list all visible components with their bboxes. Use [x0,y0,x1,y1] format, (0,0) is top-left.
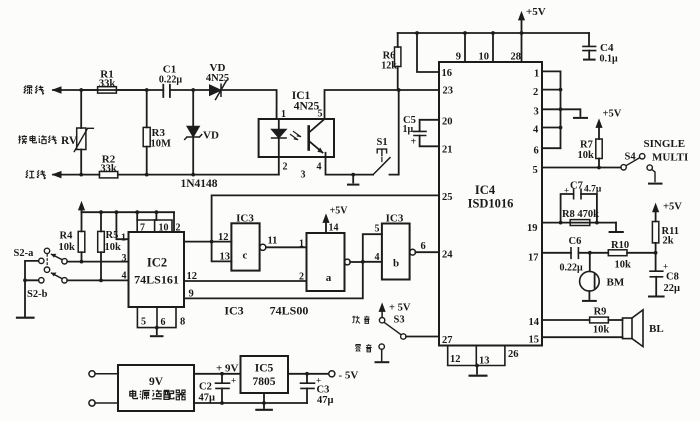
switch S2-b [39,267,68,283]
resistor R4 [78,212,85,263]
label 放音 [352,316,369,324]
wire IC4 pin28 top [521,33,523,62]
wire IC3a out to node [350,261,363,263]
logic gate IC3c [231,223,266,270]
label 录音 [356,344,372,352]
svg-text:C8: C8 [666,272,679,283]
switch S3 record/play [376,304,406,363]
resistor R2 [81,172,147,178]
svg-text:0.22μ: 0.22μ [560,263,584,274]
svg-text:SINGLE: SINGLE [644,138,686,150]
svg-text:33k: 33k [99,79,116,90]
switch S4 SINGLE/MULTI [621,154,662,184]
svg-text:10k: 10k [59,242,76,253]
node dot R3 bottom [145,173,149,177]
wire IC4 pin17 [542,252,571,254]
resistor R8 [570,220,590,226]
svg-text:R4: R4 [60,231,74,242]
node dots rail IC2 [99,210,103,214]
svg-text:5: 5 [141,317,146,328]
svg-text:33k: 33k [100,164,117,175]
svg-text:22μ: 22μ [664,283,681,294]
wire +5V rail top [398,32,589,34]
svg-text:0.22μ: 0.22μ [159,75,183,86]
svg-text:27: 27 [442,335,453,346]
svg-text:2k: 2k [663,236,674,247]
wire IC4 pin15 [542,336,623,338]
IC2 top pins 7/10 box [137,220,172,232]
ground (bottom line near S1) [348,173,358,185]
capacitor C8 [649,253,664,297]
pin 1 lead IC1 [276,110,278,119]
wire IC4 pin3 and ground [542,109,587,118]
switch S1 (pushbutton) [373,90,399,175]
svg-text:17: 17 [528,253,539,264]
svg-text:14: 14 [529,317,540,328]
svg-text:12: 12 [187,271,198,282]
wire IC2 right to IC3c inputs [184,241,231,243]
capacitor C6 [571,248,608,258]
svg-text:S2-a: S2-a [14,248,35,259]
power +5V arrow top [519,12,525,33]
resistor R1 [81,87,147,93]
svg-text:+: + [411,137,417,148]
svg-text:23: 23 [443,86,454,97]
svg-text:2: 2 [533,87,538,98]
svg-text:R9: R9 [594,307,607,318]
wire IC1 pin4 emitter to bottom line [326,157,374,175]
IC4 bottom pins 12/13 box [448,346,505,366]
node dot junction R1/RV [79,88,83,92]
resistor R3 [143,90,150,175]
wire C1 to VD [170,89,210,91]
svg-text:74LS00: 74LS00 [270,304,309,318]
svg-text:12k: 12k [381,61,397,72]
svg-text:7: 7 [140,223,145,234]
resistor R9 [590,317,623,323]
svg-text:10k: 10k [615,260,632,271]
wire IC4 pin16 [417,33,439,72]
svg-text:4: 4 [122,271,127,282]
svg-text:5: 5 [375,224,380,235]
svg-text:C2: C2 [199,382,212,393]
wire IC2 pin2 top [173,212,175,232]
svg-text:+ 9V: + 9V [216,363,239,375]
svg-text:1: 1 [534,69,539,80]
wire IC4 pin4 [542,127,561,129]
node dot VD vertical bottom [191,173,195,177]
wire IC4 pin27 to S3 [406,336,439,338]
diode VD 1N4148 (shunt zener) [185,90,202,175]
svg-text:25: 25 [442,192,453,203]
svg-text:R3: R3 [152,127,166,139]
varistor RV [74,90,93,175]
transistor Q1 inside IC1 [309,119,326,157]
logic gate IC3a [307,233,351,291]
svg-text:3: 3 [301,170,306,181]
svg-text:C4: C4 [600,42,614,54]
svg-text:28: 28 [511,52,522,63]
svg-text:1: 1 [299,239,304,250]
svg-text:0.1μ: 0.1μ [600,54,619,65]
svg-text:13: 13 [220,252,231,263]
wire IC2 pin7 top [136,212,138,220]
svg-text:11: 11 [268,236,278,247]
svg-text:+5V: +5V [663,202,682,213]
wire: S2 gang coupling dotted link [46,255,48,267]
wire IC4 pin6 [542,147,561,149]
svg-text:S3: S3 [394,315,405,326]
wire S2 common to ground [17,261,39,318]
resistor R10 [608,250,655,256]
ground IC2 bottom [151,326,163,337]
node dot IC3b inputs [361,260,365,264]
wire IC3b out to IC4 pin24 [416,251,440,253]
label 电源适配器 [130,390,186,400]
label 绿线 [24,86,44,95]
LED inside IC1 [271,119,286,157]
wire IC4 pin10 top [492,33,494,62]
wire adapter + to 7805 [194,373,241,375]
capacitor C4 [583,33,596,60]
svg-text:47μ: 47μ [199,393,216,404]
svg-text:4: 4 [533,125,539,136]
svg-text:10: 10 [479,52,490,63]
resistor R5 [98,212,105,282]
svg-text:+5V: +5V [330,206,349,217]
wire IC2 pin12 to IC3a pin2 [184,280,307,282]
svg-text:10: 10 [159,223,169,234]
svg-text:2: 2 [283,162,288,173]
svg-text:4.7μ: 4.7μ [584,185,602,195]
svg-text:6: 6 [534,146,539,157]
wire adapter - bottom rail [194,402,307,404]
svg-text:ISD1016: ISD1016 [468,197,514,211]
wire IC4 pin9 top [464,33,466,62]
svg-text:S4: S4 [625,152,637,163]
svg-text:9: 9 [189,289,194,300]
svg-text:13: 13 [479,356,490,367]
IC2 74LS161 body [129,232,185,307]
wire IC4 pin19 [542,222,616,224]
svg-text:9: 9 [456,52,461,63]
svg-text:12: 12 [450,354,461,365]
microphone BM [580,253,600,301]
wire IC2 pin10 top [155,212,157,220]
wire IC4 pin1 to right bus [542,71,561,148]
wire IC4 pin2 [542,89,561,91]
svg-text:2: 2 [299,272,304,283]
wire loop to IC3c pin13 [212,242,232,262]
ground IC4 bottom [470,364,487,376]
svg-text:+ 5V: + 5V [389,303,411,314]
svg-text:4: 4 [375,252,380,263]
node: +5V output terminal [329,371,335,377]
logic gate IC3b [382,224,416,280]
capacitor C1 [163,85,170,97]
wire IC2 pin9 feedback [184,262,363,299]
node dot R11/C8 [654,251,658,255]
svg-text:6: 6 [421,241,426,252]
switch S2-a [39,248,68,264]
svg-text:8: 8 [180,317,185,328]
wire top telephone line y=90 [81,89,163,91]
ground 7805 [256,393,271,410]
svg-text:6: 6 [161,317,166,328]
svg-text:3: 3 [534,107,539,118]
wire S2-a to IC2 pin3 [67,261,128,263]
op-amp U1 : optocoupler IC1 4N25 body [259,119,334,157]
power +5V arrow (R11) [653,204,659,222]
svg-text:+: + [231,376,236,386]
svg-text:10k: 10k [593,325,610,336]
svg-text:R10: R10 [611,240,629,251]
node: 9V adapter input terminals [89,371,118,406]
capacitor C3 [301,374,315,403]
node: green phone line terminal arrow [53,87,81,93]
power +5V arrow (IC2 rail) [79,202,85,212]
svg-text:c: c [243,250,248,262]
IC4 ISD1016 body [439,62,542,346]
resistor R6 [395,33,401,90]
node dots on +5V rail [415,31,419,35]
svg-text:C7: C7 [570,181,583,192]
svg-text:4N25: 4N25 [294,101,320,113]
node dot junction VD vertical top [191,88,195,92]
svg-text:S1: S1 [377,137,388,148]
resistor R11 [652,222,658,253]
svg-text:4N25: 4N25 [206,73,229,84]
svg-text:+5V: +5V [603,109,622,120]
node: red phone line terminal arrow [53,172,81,178]
svg-text:IC2: IC2 [147,256,167,270]
node dot junction R3 top [145,88,149,92]
svg-text:S2-b: S2-b [27,289,48,300]
svg-text:C3: C3 [317,385,330,396]
svg-text:BM: BM [607,277,625,289]
wire node to IC3b pin4 [363,261,382,263]
svg-text:1μ: 1μ [403,124,414,135]
svg-text:+5V: +5V [526,6,546,18]
svg-text:IC3: IC3 [386,213,404,225]
svg-text:+: + [663,262,668,272]
node dots right bus [559,88,563,92]
wire 7805 out [288,373,329,375]
wire IC4 pin23 to node A [399,89,439,91]
wire IC1 pin5 collector to node A [325,90,399,119]
svg-text:74LS161: 74LS161 [134,273,179,287]
svg-text:5: 5 [533,165,538,176]
resistor R7 [596,139,602,169]
svg-text:RV: RV [61,135,78,147]
svg-text:24: 24 [442,250,453,261]
wire node to IC3b pin5 [363,234,382,262]
svg-text:10M: 10M [151,139,172,150]
svg-text:10k: 10k [105,242,122,253]
svg-text:2: 2 [176,223,181,234]
svg-text:+: + [564,186,569,196]
label 红线 [26,170,46,179]
wire IC2 pin1 [116,212,128,239]
svg-text:19: 19 [527,223,538,234]
9V adapter body [118,365,194,411]
wire IC1 pin2 to bottom line [278,157,280,175]
svg-text:C6: C6 [569,236,582,247]
capacitor C5 (pins 20-21) [414,120,439,147]
wire S2-b to IC2 pin4 [67,279,128,281]
svg-text:9V: 9V [149,376,164,388]
diode VD 4N25 (series) [210,81,227,100]
node dot BM [588,251,592,255]
svg-text:R8 470k: R8 470k [562,209,599,220]
svg-text:10k: 10k [578,150,595,161]
svg-text:MULTI: MULTI [652,152,688,164]
wire +5V rail above IC2 [82,211,175,213]
svg-text:VD: VD [203,130,219,142]
svg-text:4: 4 [317,162,322,173]
regulator IC5 7805 body [241,356,289,393]
wire VD to IC1 pin1 [221,90,277,119]
wire bottom telephone line y=174 [147,174,279,176]
svg-text:3: 3 [122,253,127,264]
speaker BL [623,310,644,347]
svg-text:IC4: IC4 [475,183,496,197]
svg-text:15: 15 [529,335,540,346]
svg-text:IC5: IC5 [255,363,274,375]
svg-text:- 5V: - 5V [339,370,359,382]
svg-text:5: 5 [318,109,323,120]
svg-text:b: b [393,258,399,270]
node dot C2 top [220,372,224,376]
svg-text:21: 21 [442,145,453,156]
ground (R8 right) [610,223,623,232]
IC2 bottom pins 5/6 box [137,307,176,328]
light arrows inside IC1 [291,132,301,140]
svg-text:14: 14 [329,223,339,234]
wire IC4 pin25 [212,195,439,241]
svg-text:a: a [326,272,332,284]
svg-text:BL: BL [649,323,664,335]
power +5V arrow (R7) [596,120,602,140]
svg-text:IC3: IC3 [224,304,243,318]
svg-text:R7: R7 [580,140,593,151]
power +5V arrow (IC3a pin14) [323,215,329,234]
svg-text:+: + [316,376,321,386]
svg-text:7805: 7805 [253,376,276,388]
node dots R8 [559,221,563,225]
svg-text:R5: R5 [106,230,119,241]
label 接电话线 RV [18,135,78,147]
capacitor C7 [561,189,597,222]
svg-text:20: 20 [442,117,453,128]
svg-text:1N4148: 1N4148 [180,178,217,190]
capacitor C2 [216,374,230,405]
svg-text:47μ: 47μ [317,395,334,406]
svg-text:26: 26 [508,349,519,360]
wire IC4 pin14 [542,319,590,321]
wire IC4 pin5 to S4 [542,167,621,169]
svg-text:IC3: IC3 [236,213,254,225]
svg-text:12: 12 [218,232,229,243]
svg-text:1: 1 [281,109,286,120]
svg-text:1: 1 [121,233,126,244]
node dot red line junction [79,173,83,177]
node A dot (R6/pin23/S1) [397,88,401,92]
wire IC3c out to IC3a pin1 [266,246,307,248]
node dot C3 top [305,372,309,376]
svg-text:16: 16 [442,68,453,79]
node dot pin25 junction [210,240,214,244]
